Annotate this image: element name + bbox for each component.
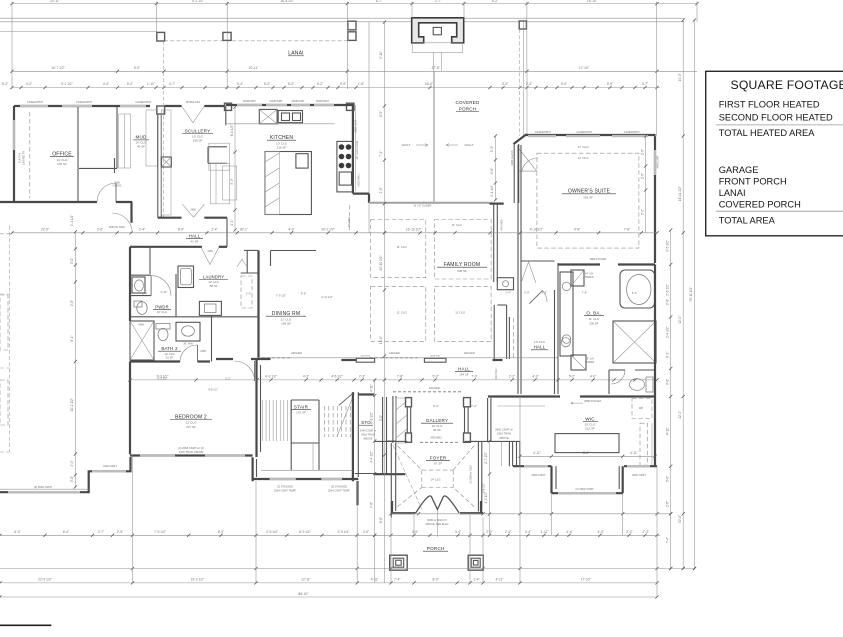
hall closet rod dashed [513,318,515,358]
svg-text:FOYER: FOYER [430,456,447,461]
island hatch band [265,152,279,215]
bedroom2 door [235,361,255,381]
overall south line [0,568,695,570]
kitchen right wall [352,105,354,194]
powder closet bottom wall [130,274,151,276]
laundry south wall [130,316,259,318]
scullery duct box [161,157,171,167]
kitchen hood [259,109,277,123]
lanai slab edge left [0,31,157,33]
svg-text:WIC: WIC [585,417,595,422]
front porch slab line [390,513,671,515]
oba top wall [558,263,600,265]
svg-text:2'-9 1/4": 2'-9 1/4" [266,530,278,534]
svg-text:327 SF: 327 SF [186,425,196,429]
bath2 shower [130,321,154,360]
scullery top wall right [204,105,226,107]
svg-text:PORCH: PORCH [459,106,477,111]
hall entry diagonal door [529,290,542,303]
svg-text:2880 POCKET: 2880 POCKET [590,257,608,261]
laundry tall cabinet dashed [241,276,252,308]
svg-text:5'-0": 5'-0" [379,415,383,421]
laundry left wall [129,247,131,316]
family tray dashed NW [371,220,426,278]
svg-text:8'-9 1/2": 8'-9 1/2" [299,530,311,534]
svg-text:2416 TRAN: 2416 TRAN [497,432,511,436]
svg-text:7'-8": 7'-8" [397,375,403,379]
svg-text:2'-8": 2'-8" [524,291,530,295]
svg-text:CASEDOPNT: CASEDOPNT [576,130,593,134]
svg-text:9'-9": 9'-9" [230,178,234,184]
stair bay inner face [261,469,353,471]
laundry east closet [244,249,258,251]
svg-text:7'-8": 7'-8" [624,228,630,232]
svg-text:FIRST FLOOR HEATED: FIRST FLOOR HEATED [719,100,820,110]
bedroom2 bottom windows [140,454,175,456]
svg-text:42 SF: 42 SF [190,240,198,244]
svg-text:HALL: HALL [458,367,470,372]
svg-text:WD: WD [639,406,643,410]
wic south window west [524,465,548,467]
family arch dashed vertical [348,205,350,233]
wic bay right wall [622,466,624,493]
svg-text:17'-10": 17'-10" [581,578,591,582]
family top wall east [490,203,504,205]
svg-text:COVERED PORCH: COVERED PORCH [719,199,801,209]
office window left [13,120,15,150]
hall door top [522,158,538,171]
covered porch floor dashed [422,201,492,203]
svg-text:6'-8": 6'-8" [379,517,383,523]
svg-text:14' x 8' SLIDER: 14' x 8' SLIDER [413,204,431,208]
svg-text:2'-6": 2'-6" [665,299,669,305]
svg-text:2'-4 1/2": 2'-4 1/2" [665,326,669,338]
svg-text:4'-4": 4'-4" [566,530,572,534]
svg-text:5'-0": 5'-0" [433,375,439,379]
svg-text:4'-4 1/2": 4'-4 1/2" [369,451,373,463]
porch side wall left [391,512,416,514]
svg-text:TOWER: TOWER [585,361,594,364]
svg-text:5'-2": 5'-2" [492,0,498,3]
svg-text:16'-10 1/2": 16'-10 1/2" [406,228,421,232]
svg-text:5'-4": 5'-4" [237,82,243,86]
svg-text:ABOVE, SEE ELEV: ABOVE, SEE ELEV [426,522,449,526]
office right wall [77,107,79,202]
stair bay windows [270,478,296,480]
svg-text:4'-11": 4'-11" [630,451,638,455]
svg-text:30x8CSMT: 30x8CSMT [243,99,256,103]
svg-text:2'-4": 2'-4" [211,228,217,232]
owner right wall window [654,150,656,175]
scullery right wall upper [225,106,227,125]
lanai roof edge upper [0,17,684,19]
svg-text:1'-1 1/4": 1'-1 1/4" [490,185,494,197]
svg-text:438 SF: 438 SF [457,269,467,273]
hall closet V doors [521,262,536,283]
svg-text:FRONT PORCH: FRONT PORCH [719,176,787,186]
svg-text:(2) 5060 CSMT: (2) 5060 CSMT [34,485,53,489]
foyer entry sill right [460,512,483,514]
right dim col A [670,230,672,569]
window office top 1 [20,105,48,107]
svg-text:30x8CSMT: 30x8CSMT [316,99,329,103]
bath2 bottom wall [130,360,180,362]
svg-text:6'-1": 6'-1" [665,352,669,358]
gallery right wall pair [464,397,466,441]
svg-text:16'-4 1/2": 16'-4 1/2" [280,0,293,3]
foyer entry door curved M [416,496,459,513]
bedroom2 left wall [129,362,131,455]
svg-text:4'-11": 4'-11" [496,578,504,582]
svg-text:7'-0": 7'-0" [471,375,477,379]
oba wc door [611,370,625,384]
kitchen wall ovens [278,111,302,123]
svg-text:2'-6": 2'-6" [70,300,74,306]
stair left risers [262,400,264,441]
gallery corner stubs [406,398,412,407]
svg-text:2660 CSMT w/: 2660 CSMT w/ [495,427,513,431]
svg-text:SCULLERY: SCULLERY [185,128,211,133]
svg-text:2'-3": 2'-3" [643,530,649,534]
svg-text:BUILT-IN: BUILT-IN [19,153,22,163]
svg-text:208 SF: 208 SF [589,321,599,325]
oba shower [613,321,656,363]
svg-text:2'-6": 2'-6" [379,187,383,193]
svg-text:2468: 2468 [200,350,206,353]
svg-text:7'-9 1/2": 7'-9 1/2" [154,530,166,534]
svg-text:175 SF: 175 SF [296,411,306,415]
owner right dim short [645,136,647,233]
lanai column 2 [223,32,231,40]
svg-text:4'-11": 4'-11" [533,451,541,455]
svg-text:11' CLG: 11' CLG [455,311,465,315]
svg-text:1'-11 1/2": 1'-11 1/2" [321,295,333,299]
svg-text:2664 CSMT TEMP.: 2664 CSMT TEMP. [274,489,296,493]
svg-text:4'-6 1/2": 4'-6 1/2" [331,375,343,379]
extension lines top [11,2,13,90]
svg-text:3'-5 1/2": 3'-5 1/2" [665,240,669,252]
svg-text:10' CLG: 10' CLG [157,310,167,314]
svg-text:2'-2": 2'-2" [509,375,515,379]
svg-text:LANAI: LANAI [719,188,746,198]
svg-text:3060CSMT: 3060CSMT [656,155,660,169]
sto dim col [374,380,376,583]
family tray dashed SW [371,286,426,341]
sto to porch wall [355,473,390,475]
svg-text:2468: 2468 [138,324,144,327]
svg-text:5'-4": 5'-4" [632,291,637,295]
bedroom2 bottom wall [130,454,253,456]
svg-text:4'-3 1/2": 4'-3 1/2" [265,375,277,379]
svg-text:3'-9": 3'-9" [412,530,418,534]
kitchen tall cabinets [209,143,230,170]
svg-text:9'-1 1/2": 9'-1 1/2" [192,0,204,3]
svg-text:SQUARE FOOTAGE: SQUARE FOOTAGE [731,78,843,92]
powder divider wall [149,247,151,274]
family left open line [368,204,370,233]
window mud top [120,105,146,107]
svg-text:KNEE WALL: KNEE WALL [358,173,361,187]
scullery left counter [161,110,171,215]
svg-text:2'-7 1/2": 2'-7 1/2" [484,452,488,464]
corridor jog walls [497,304,506,306]
porch column left [390,555,408,570]
svg-text:2'-4": 2'-4" [142,292,148,296]
svg-text:2'-2": 2'-2" [246,292,252,296]
oba wc wall [609,369,625,371]
svg-text:2030 FXD: 2030 FXD [430,355,440,357]
svg-text:CASEDOPNT: CASEDOPNT [27,100,44,104]
owner hall east wall [554,290,556,394]
dim row 2 [12,70,697,72]
svg-text:212 SF: 212 SF [585,427,595,431]
left wall window glass [8,491,80,493]
svg-text:8'-9": 8'-9" [178,228,184,232]
svg-text:12'-11": 12'-11" [301,578,311,582]
svg-text:4'-9 1/2": 4'-9 1/2" [484,492,488,504]
svg-text:GARAGE: GARAGE [719,165,759,175]
kitchen windows top [237,104,262,106]
dimension row top overall [12,3,697,5]
svg-text:7'-4": 7'-4" [665,537,669,543]
owner entry door wedge [519,149,537,172]
wall office-mud top exterior [14,105,150,107]
svg-text:1'-8": 1'-8" [358,82,364,86]
gallery-foyer jog wall [468,441,478,443]
sto east wall pair [382,397,384,474]
svg-text:3'-7": 3'-7" [642,82,648,86]
svg-text:5'-2": 5'-2" [127,82,133,86]
owner corridor wall west [513,144,515,203]
family slider glass [369,202,490,204]
svg-text:5'-2": 5'-2" [2,82,8,86]
svg-text:(2) 2680 w/ 2030: (2) 2680 w/ 2030 [470,465,473,484]
svg-text:353 SF: 353 SF [583,195,593,199]
svg-text:ARCHED: ARCHED [495,369,498,380]
foyer tray dashed diagonals [397,446,474,507]
svg-text:20'-10 1/2": 20'-10 1/2" [379,255,383,270]
gallery arched south dashes [420,441,458,443]
wic bay bottom wall [552,492,623,494]
svg-text:4'-3": 4'-3" [303,375,309,379]
svg-text:7'-9 1/2": 7'-9 1/2" [276,293,286,297]
svg-text:5'-3": 5'-3" [490,146,494,152]
hall door to office side [112,213,132,233]
mud right wall lower [130,202,132,223]
bedroom porch steps [0,457,131,492]
main mid dim row [12,232,657,234]
svg-text:ARCHED: ARCHED [464,351,475,355]
svg-text:2'-6 1/2": 2'-6 1/2" [665,284,669,296]
svg-text:2'-0": 2'-0" [70,460,74,466]
foyer dim col [489,441,491,535]
svg-text:6'-0": 6'-0" [218,530,224,534]
overall width line [0,596,657,598]
svg-text:12'-0": 12'-0" [678,316,682,324]
svg-text:TOTAL AREA: TOTAL AREA [719,216,776,226]
arch wall hall top [260,357,558,359]
svg-text:ARCHED: ARCHED [348,217,351,227]
wic bay dim row [520,455,655,457]
gallery top arch dashes [393,391,462,393]
svg-text:5'-2": 5'-2" [569,375,575,379]
stair bay corner to porch [356,481,358,505]
svg-text:3'-6": 3'-6" [70,476,74,482]
svg-text:20'-11": 20'-11" [249,66,259,70]
svg-text:30'-1": 30'-1" [240,228,248,232]
owner tray ceiling dashed [537,153,639,248]
scullery bottom wall [158,217,182,219]
svg-text:COVERED: COVERED [455,100,480,105]
kitchen wall post right [347,103,355,110]
svg-text:19'-2 1/2": 19'-2 1/2" [191,578,204,582]
svg-text:CASEDOPNT: CASEDOPNT [624,130,641,134]
sto entry diagonal door [339,393,353,405]
svg-text:11' CLG: 11' CLG [452,223,462,227]
stair right risers dashed [324,406,326,437]
right dim col B [682,20,684,569]
svg-text:ABOVE: ABOVE [499,436,508,440]
house right wall [654,265,656,467]
sto walls [352,392,354,481]
svg-text:(2) 2668 CSMT w/ (2): (2) 2668 CSMT w/ (2) [178,446,204,450]
svg-text:BATH 2: BATH 2 [161,346,178,351]
svg-text:2'-0": 2'-0" [640,149,644,155]
svg-text:4'-1 1/2": 4'-1 1/2" [70,215,74,227]
svg-text:GALLERY: GALLERY [426,418,449,423]
scullery door to hall V [182,204,204,217]
dining niche wall [271,250,317,252]
hall north closet wall [521,260,555,262]
office builtin dashed [29,112,31,198]
svg-text:11' CLG: 11' CLG [397,311,407,315]
bath2 toilet [156,324,170,330]
office-mud wall upper [114,158,116,173]
svg-text:2'-4": 2'-4" [505,291,511,295]
svg-text:4'-1": 4'-1" [230,219,234,225]
covered porch dashed post line [519,29,521,136]
svg-text:9'-9": 9'-9" [134,66,140,70]
chimney chase column [157,106,165,114]
svg-text:9'-3 1/2": 9'-3 1/2" [157,375,169,379]
svg-text:O. BA.: O. BA. [586,311,601,316]
left vertical dim col [74,232,76,487]
oba toilet [646,377,653,392]
lanai column 1 [157,32,165,41]
svg-text:6'-0 1/2": 6'-0 1/2" [230,125,234,137]
sto south wall [374,473,405,475]
square footage table [706,71,843,236]
oba tub [620,270,655,308]
gallery west wall pair [406,397,408,441]
svg-text:30" VAN: 30" VAN [183,342,193,345]
scullery pass-through walls [208,146,227,148]
svg-text:2468: 2468 [190,209,196,212]
svg-text:CASEDOPNT: CASEDOPNT [135,100,152,104]
chase wall mud-scullery [157,114,159,218]
svg-text:ARCHED: ARCHED [291,351,302,355]
powder toilet [134,301,142,307]
svg-text:2660 CSMT: 2660 CSMT [532,473,546,477]
mud bench [119,114,131,168]
svg-text:(3) STACKED: (3) STACKED [277,485,293,489]
laundry-dining wall [226,233,228,247]
svg-text:3'-8": 3'-8" [490,168,494,174]
covered porch left edge line [368,22,370,202]
powder bath wall [129,316,131,322]
svg-text:97 SF: 97 SF [434,462,442,466]
foyer northwest jog wall [374,440,407,442]
svg-text:16'-0": 16'-0" [425,82,433,86]
svg-text:ARCHED: ARCHED [500,219,504,230]
sto hatched closet [396,398,407,443]
laundry closet door V [237,259,247,266]
wic top window line [498,405,546,407]
sto chase walls [392,396,394,443]
svg-text:3'-0": 3'-0" [665,379,669,385]
laundry west wall [175,274,177,317]
svg-text:7'-4": 7'-4" [394,578,400,582]
owner suite top windows [528,135,556,137]
owner suite right wall [654,136,656,263]
svg-text:HALL: HALL [189,234,201,239]
svg-text:2416 TRAN: 2416 TRAN [361,432,375,436]
svg-text:11' CLG: 11' CLG [578,156,589,160]
center long dim col [384,22,386,583]
svg-text:14'-0": 14'-0" [678,73,682,81]
svg-text:2'-3": 2'-3" [626,530,632,534]
svg-text:8'-6": 8'-6" [583,451,589,455]
svg-text:5'-2": 5'-2" [288,82,294,86]
wic south wall west [513,465,552,467]
svg-text:17' CLG: 17' CLG [578,145,590,149]
dim row 3 small segments [12,87,660,89]
svg-text:3'-9": 3'-9" [340,82,346,86]
scullery entry door V [182,106,205,123]
laundry sink cabinet [199,301,221,315]
svg-text:1'-10": 1'-10" [147,82,155,86]
dining west wall [257,250,259,357]
svg-text:3080 GLASS: 3080 GLASS [510,150,514,165]
svg-text:2'-2": 2'-2" [542,291,548,295]
svg-text:GLASS: GLASS [113,184,122,188]
svg-text:TOTAL HEATED AREA: TOTAL HEATED AREA [719,128,816,138]
svg-text:58 SF: 58 SF [210,284,218,288]
family tray dashed NE [434,220,491,280]
svg-text:2'-6": 2'-6" [97,228,103,232]
svg-text:4'-6 1/2": 4'-6 1/2" [482,483,486,493]
svg-text:10' CLG: 10' CLG [534,340,546,344]
svg-text:30'-1 1/2": 30'-1 1/2" [321,228,334,232]
svg-text:2'-4": 2'-4" [525,530,531,534]
svg-text:ABOVE: ABOVE [364,436,373,440]
shower valve circle [561,338,570,347]
hall transom box 1 [356,358,374,362]
wic closet chase walls [508,441,510,466]
wic dim ext line [501,442,503,466]
svg-text:MUD: MUD [135,135,147,140]
svg-text:2'-3": 2'-3" [359,375,365,379]
porch diagonal dashed [393,445,422,509]
owner entry corner chamfer [514,134,527,144]
svg-text:2'-0": 2'-0" [640,173,644,179]
svg-text:9'-11": 9'-11" [379,51,383,59]
svg-text:3050 LIGHT: 3050 LIGHT [355,119,358,133]
svg-text:4'-11": 4'-11" [369,384,373,392]
svg-text:11' CLG: 11' CLG [397,245,407,249]
lanai column 4 [519,21,526,29]
fireplace flue [433,27,441,34]
